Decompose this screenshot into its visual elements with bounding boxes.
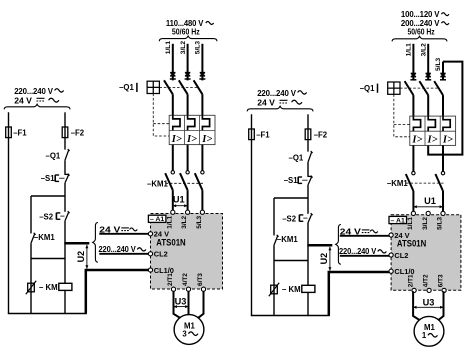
- svg-text:–KM1: –KM1: [147, 180, 168, 189]
- svg-text:U1: U1: [173, 195, 185, 205]
- wire: [307, 223, 309, 261]
- svg-text:–Q1: –Q1: [46, 151, 61, 160]
- brace: mains supply: [392, 36, 447, 41]
- breaker pole 1 contact: [164, 80, 173, 94]
- wire: phase 1/L1 supply: [172, 44, 174, 81]
- wire: pole output 2: [187, 145, 189, 171]
- wire: [412, 95, 414, 116]
- breaker pole 2 contact: [419, 81, 428, 95]
- svg-text:CL2: CL2: [154, 250, 168, 259]
- terminal CL2: [389, 253, 393, 257]
- svg-text:I>: I>: [411, 135, 422, 146]
- wire: varistor branch: [273, 261, 275, 316]
- wire: [307, 261, 309, 286]
- mechanical link KM1 (dashed): [165, 182, 203, 184]
- dimension arrow U2 (control voltage): [329, 247, 331, 271]
- wire: [172, 190, 174, 211]
- svg-text:4/T2: 4/T2: [423, 274, 430, 287]
- mechanical link Q1 to trip unit (dashed): [153, 94, 169, 137]
- svg-text:I>: I>: [427, 135, 438, 146]
- terminal 3/L2 (starter input): [426, 211, 430, 215]
- wire: branch junction top: [274, 197, 308, 199]
- svg-text:220...240 V: 220...240 V: [339, 246, 376, 256]
- svg-text:3/L2: 3/L2: [420, 43, 427, 57]
- svg-text:U2: U2: [319, 253, 329, 265]
- contactor KM1 main contact 1: [171, 171, 174, 174]
- terminal 24 V: [148, 232, 152, 236]
- wire: [273, 245, 275, 260]
- wire: link jumper L2 output to 5/L3 input: [428, 62, 462, 155]
- soft starter U1/A1 block ATS01N (enclosure): [391, 215, 461, 291]
- label -A1: [389, 216, 407, 223]
- svg-text:5/L3: 5/L3: [196, 215, 203, 228]
- svg-text:–S1: –S1: [41, 174, 56, 183]
- svg-text:– KM: – KM: [39, 283, 58, 292]
- wire: [187, 190, 189, 211]
- dimension arrow U2 (control voltage): [86, 245, 88, 269]
- wire: phase 3/L2 supply: [187, 44, 189, 81]
- terminal 6/T3 (starter output): [201, 287, 205, 291]
- mechanical link Q1 (dashed): [159, 86, 199, 88]
- wire: control phase (left): [8, 112, 10, 313]
- wire: [412, 191, 414, 212]
- svg-text:1: 1: [422, 331, 427, 340]
- svg-text:– A1: – A1: [391, 217, 405, 224]
- svg-text:24 V: 24 V: [394, 231, 409, 240]
- wire: [442, 191, 444, 212]
- fuse F1: [6, 127, 12, 138]
- svg-text:–KM1: –KM1: [277, 235, 298, 244]
- svg-text:– KM: – KM: [282, 285, 301, 294]
- thermal element pole 1: [413, 116, 420, 131]
- svg-text:– A1: – A1: [150, 216, 164, 223]
- soft starter U1/A1 block ATS01N (enclosure): [151, 214, 223, 290]
- svg-text:5/L3: 5/L3: [437, 217, 444, 230]
- brace: control input selection: [336, 225, 341, 265]
- trip unit box (thermal + magnetic): [169, 115, 215, 144]
- svg-text:50/60 Hz: 50/60 Hz: [172, 27, 200, 37]
- wire: [427, 95, 429, 116]
- wire: phase 1/L1 supply: [412, 44, 414, 81]
- brace: mains supply: [159, 36, 217, 41]
- mechanical link KM1 (dashed): [406, 182, 444, 184]
- terminal CL1/0: [148, 268, 152, 272]
- wire: [187, 94, 189, 115]
- wire: control phase (left): [251, 114, 253, 315]
- wire: [307, 185, 309, 214]
- svg-text:4/T2: 4/T2: [182, 273, 189, 286]
- wire: control phase (right): [307, 114, 309, 151]
- wire: [64, 259, 66, 284]
- wire: motor lead T1: [413, 291, 421, 321]
- contact KM1 auxiliary (NO): [31, 234, 35, 243]
- terminal marks pole 1: [411, 72, 416, 74]
- wire: branch junction top: [31, 195, 65, 197]
- svg-text:–F2: –F2: [314, 130, 328, 139]
- svg-text:1/L1: 1/L1: [166, 215, 173, 228]
- wire: feed to starter control input: [307, 244, 332, 247]
- motor M1 (1-phase): [414, 316, 444, 346]
- brace: control supply selection: [4, 104, 70, 109]
- svg-text:–S2: –S2: [39, 212, 54, 221]
- wire: bottom return rail: [251, 315, 330, 317]
- breaker pole 3 contact: [194, 80, 203, 94]
- thermal element pole 3: [202, 115, 209, 130]
- contactor KM1 main contact 2: [441, 171, 444, 174]
- terminal 5/L3 (starter input): [441, 211, 445, 215]
- wire: [64, 160, 66, 174]
- wire: phase 5/L3 supply: [201, 44, 203, 81]
- svg-text:CL1/0: CL1/0: [154, 266, 174, 275]
- svg-text:I>: I>: [201, 134, 212, 145]
- svg-text:U3: U3: [175, 296, 187, 306]
- brace: control input selection: [93, 223, 98, 263]
- svg-text:–KM1: –KM1: [34, 233, 55, 242]
- svg-text:50/60 Hz: 50/60 Hz: [408, 26, 435, 36]
- svg-text:6/T3: 6/T3: [438, 274, 445, 287]
- thermal element pole 3: [443, 116, 450, 131]
- svg-text:3: 3: [182, 330, 187, 339]
- wire: return to CL1/0: [329, 272, 391, 316]
- wire: pole output 1: [412, 145, 414, 171]
- wire: [30, 243, 32, 258]
- terminal 4/T2 (starter output): [427, 288, 431, 292]
- wire: branch junction bottom: [31, 258, 65, 260]
- terminal 4/T2 (starter output): [186, 287, 190, 291]
- wire: motor lead T2: [188, 291, 190, 315]
- svg-text:U1: U1: [424, 196, 436, 206]
- svg-text:I>: I>: [171, 134, 182, 145]
- thermal element pole 2: [188, 115, 195, 130]
- svg-text:–Q1: –Q1: [360, 84, 375, 93]
- svg-text:I>: I>: [442, 135, 453, 146]
- fuse F2: [305, 129, 311, 140]
- svg-text:–F2: –F2: [71, 128, 85, 137]
- wire: feed to starter control input: [64, 242, 89, 245]
- wire: phase 3/L2 supply: [427, 44, 429, 81]
- svg-text:24 V: 24 V: [257, 97, 275, 107]
- varistor (surge suppressor): [28, 283, 35, 292]
- terminal marks pole 2: [426, 72, 431, 74]
- svg-text:24 V: 24 V: [154, 230, 169, 239]
- svg-text:I>: I>: [186, 134, 197, 145]
- breaker pole 1 contact: [405, 81, 414, 95]
- svg-text:3/L2: 3/L2: [181, 215, 188, 228]
- svg-text:1/L1: 1/L1: [165, 41, 172, 55]
- wire: [201, 94, 203, 115]
- svg-text:–S1: –S1: [284, 176, 299, 185]
- wire: pole output 3: [201, 145, 203, 171]
- terminal 1/L1 (starter input): [411, 211, 415, 215]
- svg-text:–Q1: –Q1: [119, 83, 134, 92]
- wire: [201, 190, 203, 211]
- svg-text:6/T3: 6/T3: [197, 273, 204, 286]
- svg-text:220...240 V: 220...240 V: [99, 244, 136, 254]
- breaker pole 3 contact: [434, 81, 443, 95]
- wire: [64, 290, 66, 313]
- wire: varistor branch: [30, 259, 32, 314]
- contactor KM1 main contact 1: [412, 171, 415, 174]
- wire: branch junction bottom: [274, 260, 308, 262]
- terminal 6/T3 (starter output): [442, 288, 446, 292]
- wire: [442, 95, 444, 116]
- terminal 3/L2 (starter input): [186, 210, 190, 214]
- contactor KM1 main contact 3: [201, 171, 204, 174]
- wire: return to CL1/0: [86, 270, 151, 314]
- terminal marks pole 1: [170, 72, 175, 74]
- terminal 2/T1 (starter output): [171, 287, 175, 291]
- wire: phase 5/L3 input: [442, 62, 444, 81]
- trip unit box (thermal + magnetic): [410, 116, 456, 145]
- svg-text:3/L2: 3/L2: [180, 41, 187, 55]
- svg-text:5/L3: 5/L3: [195, 41, 202, 55]
- terminal marks pole 3: [200, 72, 205, 74]
- terminal marks pole 2: [185, 72, 190, 74]
- svg-text:–KM1: –KM1: [387, 179, 408, 188]
- svg-text:CL1/0: CL1/0: [394, 267, 414, 276]
- wire: branch vertical: [30, 196, 32, 233]
- wire: [307, 162, 309, 176]
- svg-text:24 V: 24 V: [14, 95, 32, 105]
- thermal element pole 1: [173, 115, 180, 130]
- svg-text:CL2: CL2: [394, 251, 408, 260]
- svg-text:–Q1: –Q1: [289, 153, 304, 162]
- svg-text:3/L2: 3/L2: [422, 217, 429, 230]
- svg-text:–S2: –S2: [282, 214, 297, 223]
- wire: bottom return rail: [8, 313, 87, 315]
- svg-text:1/L1: 1/L1: [406, 43, 413, 57]
- terminal 5/L3 (starter input): [200, 210, 204, 214]
- wire: control phase (right): [64, 112, 66, 149]
- terminal 2/T1 (starter output): [412, 288, 416, 292]
- svg-text:ATS01N: ATS01N: [397, 239, 426, 249]
- fuse F1: [249, 129, 255, 140]
- wire: motor lead T3: [197, 291, 204, 319]
- svg-text:U2: U2: [76, 251, 86, 263]
- wire: [64, 221, 66, 259]
- wire: pole output 2: [442, 145, 444, 171]
- wire: [307, 292, 309, 315]
- terminal 1/L1 (starter input): [171, 210, 175, 214]
- svg-text:1/L1: 1/L1: [407, 217, 414, 230]
- brace: control supply selection: [247, 106, 313, 111]
- wire: [64, 183, 66, 212]
- terminal CL2: [148, 252, 152, 256]
- svg-text:–F1: –F1: [13, 128, 27, 137]
- thermal element pole 2: [428, 116, 435, 131]
- varistor (surge suppressor): [271, 285, 278, 294]
- label -A1: [148, 215, 166, 222]
- breaker pole 2 contact: [179, 80, 188, 94]
- contactor KM1 main contact 2: [186, 171, 189, 174]
- motor M1 (3-phase): [174, 315, 204, 345]
- wire: branch vertical: [273, 198, 275, 235]
- wire: motor lead T1: [174, 291, 182, 318]
- wire: motor lead T3: [437, 291, 443, 321]
- svg-text:ATS01N: ATS01N: [156, 237, 185, 247]
- terminal 24 V: [389, 233, 393, 237]
- contact KM1 auxiliary (NO): [274, 236, 278, 245]
- terminal marks pole 3: [440, 72, 445, 74]
- mechanical link Q1 to trip unit (dashed): [394, 94, 410, 137]
- wire: [172, 94, 174, 115]
- mechanical link Q1 (dashed): [400, 87, 440, 89]
- svg-text:U3: U3: [423, 298, 435, 308]
- wire: pole output 1: [172, 145, 174, 171]
- svg-text:5/L3: 5/L3: [435, 57, 442, 71]
- svg-text:–F1: –F1: [256, 130, 270, 139]
- fuse F2: [62, 127, 68, 138]
- terminal CL1/0: [389, 269, 393, 273]
